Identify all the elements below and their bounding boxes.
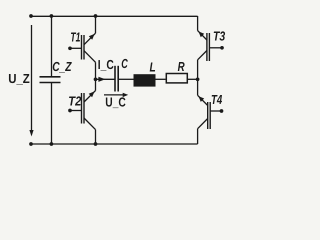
svg-text:T3: T3 [213, 29, 226, 44]
svg-text:T4: T4 [211, 92, 223, 107]
svg-text:R: R [178, 59, 185, 74]
svg-text:U_C: U_C [105, 94, 126, 109]
svg-text:T2: T2 [68, 94, 82, 109]
svg-text:U_Z: U_Z [8, 71, 30, 86]
svg-text:C_Z: C_Z [52, 59, 72, 74]
svg-text:C: C [121, 56, 128, 71]
svg-text:I_C: I_C [98, 57, 114, 72]
svg-text:T1: T1 [70, 30, 80, 45]
svg-text:L: L [150, 59, 156, 74]
